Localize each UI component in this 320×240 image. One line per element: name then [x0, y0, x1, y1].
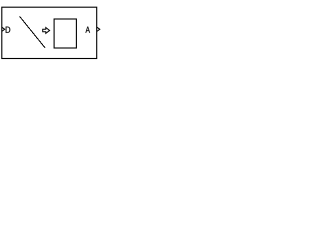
block border — [2, 7, 97, 58]
hollow right arrow — [43, 28, 50, 34]
background — [0, 0, 101, 63]
output port A arrow — [97, 27, 100, 31]
diagonal line — [20, 16, 45, 48]
input port D arrow — [2, 27, 5, 31]
inner square block — [54, 19, 76, 48]
port label A — [86, 27, 90, 33]
port label D — [6, 27, 11, 33]
